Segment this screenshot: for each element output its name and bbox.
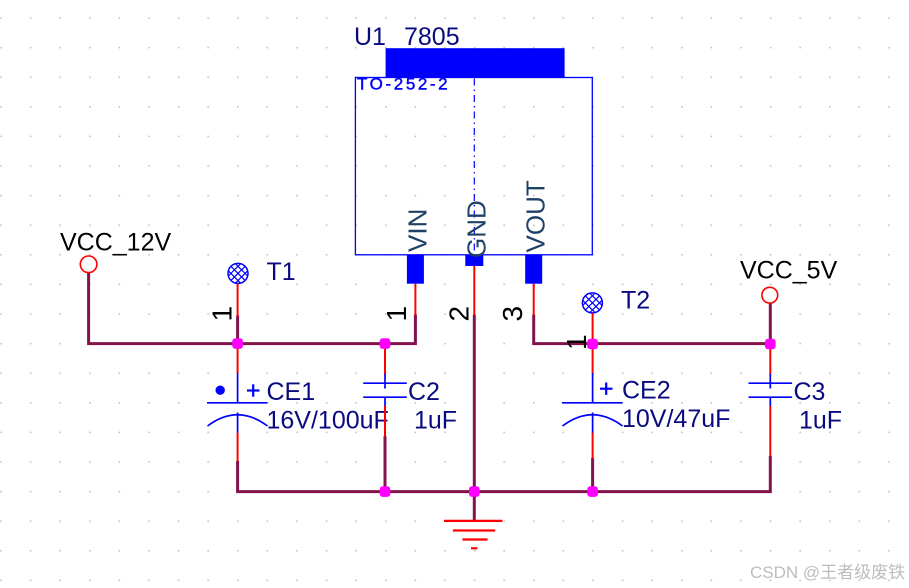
svg-text:16V/100uF: 16V/100uF: [267, 407, 389, 435]
capacitor CE2 plus sign: [600, 383, 613, 395]
capacitor C3 symbol: [749, 374, 793, 406]
svg-text:1: 1: [207, 306, 238, 322]
capacitor CE1 symbol: [207, 373, 268, 433]
U1 pin 1 lead: [414, 284, 416, 316]
U1 pin 2 lead: [473, 266, 475, 316]
junction node C2 on ground net: [380, 486, 391, 497]
U1 pin 3 pad: [525, 255, 542, 284]
power port VCC_5V circle: [762, 287, 778, 303]
svg-text:1uF: 1uF: [414, 407, 457, 435]
U1 pin 1 pad: [407, 255, 424, 284]
op-amp U1 tab: [386, 48, 565, 78]
capacitor CE2 bottom pin lead: [592, 433, 594, 459]
svg-text:GND: GND: [462, 200, 492, 258]
U1 center dash-dot line: [473, 79, 475, 254]
svg-text:1uF: 1uF: [799, 407, 842, 435]
capacitor CE1 plus sign: [247, 384, 260, 396]
svg-text:CSDN @王者级废铁: CSDN @王者级废铁: [750, 563, 905, 582]
U1 body: [355, 78, 592, 255]
test point T2 pin lead: [592, 313, 594, 344]
junction node VCC_5V/C3 on VOUT net: [765, 339, 776, 350]
wire GND column: [473, 315, 476, 521]
svg-text:VCC_12V: VCC_12V: [60, 229, 171, 257]
capacitor C2 bottom pin lead: [384, 406, 386, 437]
U1 pin 3 lead: [533, 284, 535, 316]
junction node CE2 on ground net: [587, 486, 598, 497]
capacitor CE2 symbol: [562, 373, 623, 433]
capacitor CE1 bottom pin lead: [237, 433, 239, 462]
test point T2: [577, 281, 607, 325]
wire CE2 bottom stub: [591, 458, 594, 492]
svg-text:VOUT: VOUT: [521, 180, 551, 252]
wire VCC_12V stem and horizontal net to VIN: [89, 273, 416, 344]
capacitor CE1 polarity dot: [216, 386, 225, 395]
svg-text:10V/47uF: 10V/47uF: [622, 405, 730, 433]
power port VCC_12V circle: [80, 256, 97, 273]
junction node T1/CE1 on VIN net: [232, 338, 243, 349]
capacitor C3 top pin lead: [769, 344, 771, 375]
svg-text:C3: C3: [794, 378, 826, 406]
svg-text:VCC_5V: VCC_5V: [740, 257, 838, 285]
wire VOUT horizontal net to VCC_5V: [534, 315, 771, 344]
svg-text:1: 1: [381, 306, 412, 322]
junction node GND column on ground net: [469, 486, 480, 497]
svg-text:CE2: CE2: [622, 377, 671, 405]
junction node T2/CE2 on VOUT net: [587, 339, 598, 350]
svg-text:VIN: VIN: [403, 209, 433, 252]
ground symbol: [444, 521, 502, 548]
test point T1: [223, 251, 253, 295]
capacitor C2 top pin lead: [384, 344, 386, 375]
capacitor C3 bottom pin lead: [769, 406, 771, 457]
capacitor CE1 top pin lead: [237, 344, 239, 374]
capacitor CE2 top pin lead: [592, 344, 594, 374]
test point T1 pin lead: [237, 284, 239, 317]
svg-text:3: 3: [497, 306, 528, 322]
wire VCC_5V stem: [769, 303, 772, 344]
svg-text:C2: C2: [408, 378, 440, 406]
wire bottom ground net: [238, 456, 771, 492]
svg-text:7805: 7805: [404, 23, 460, 51]
svg-text:U1: U1: [354, 23, 386, 51]
svg-text:2: 2: [444, 306, 475, 322]
svg-text:TO-252-2: TO-252-2: [357, 75, 450, 94]
wire T1 stub: [236, 316, 239, 344]
capacitor C2 symbol: [363, 374, 407, 406]
svg-text:T1: T1: [267, 258, 296, 286]
junction node C2 on VIN net: [380, 338, 391, 349]
svg-text:CE1: CE1: [267, 378, 316, 406]
wire C2 bottom stub: [384, 436, 387, 492]
svg-text:T2: T2: [621, 287, 650, 315]
U1 pin 2 pad: [465, 255, 483, 266]
